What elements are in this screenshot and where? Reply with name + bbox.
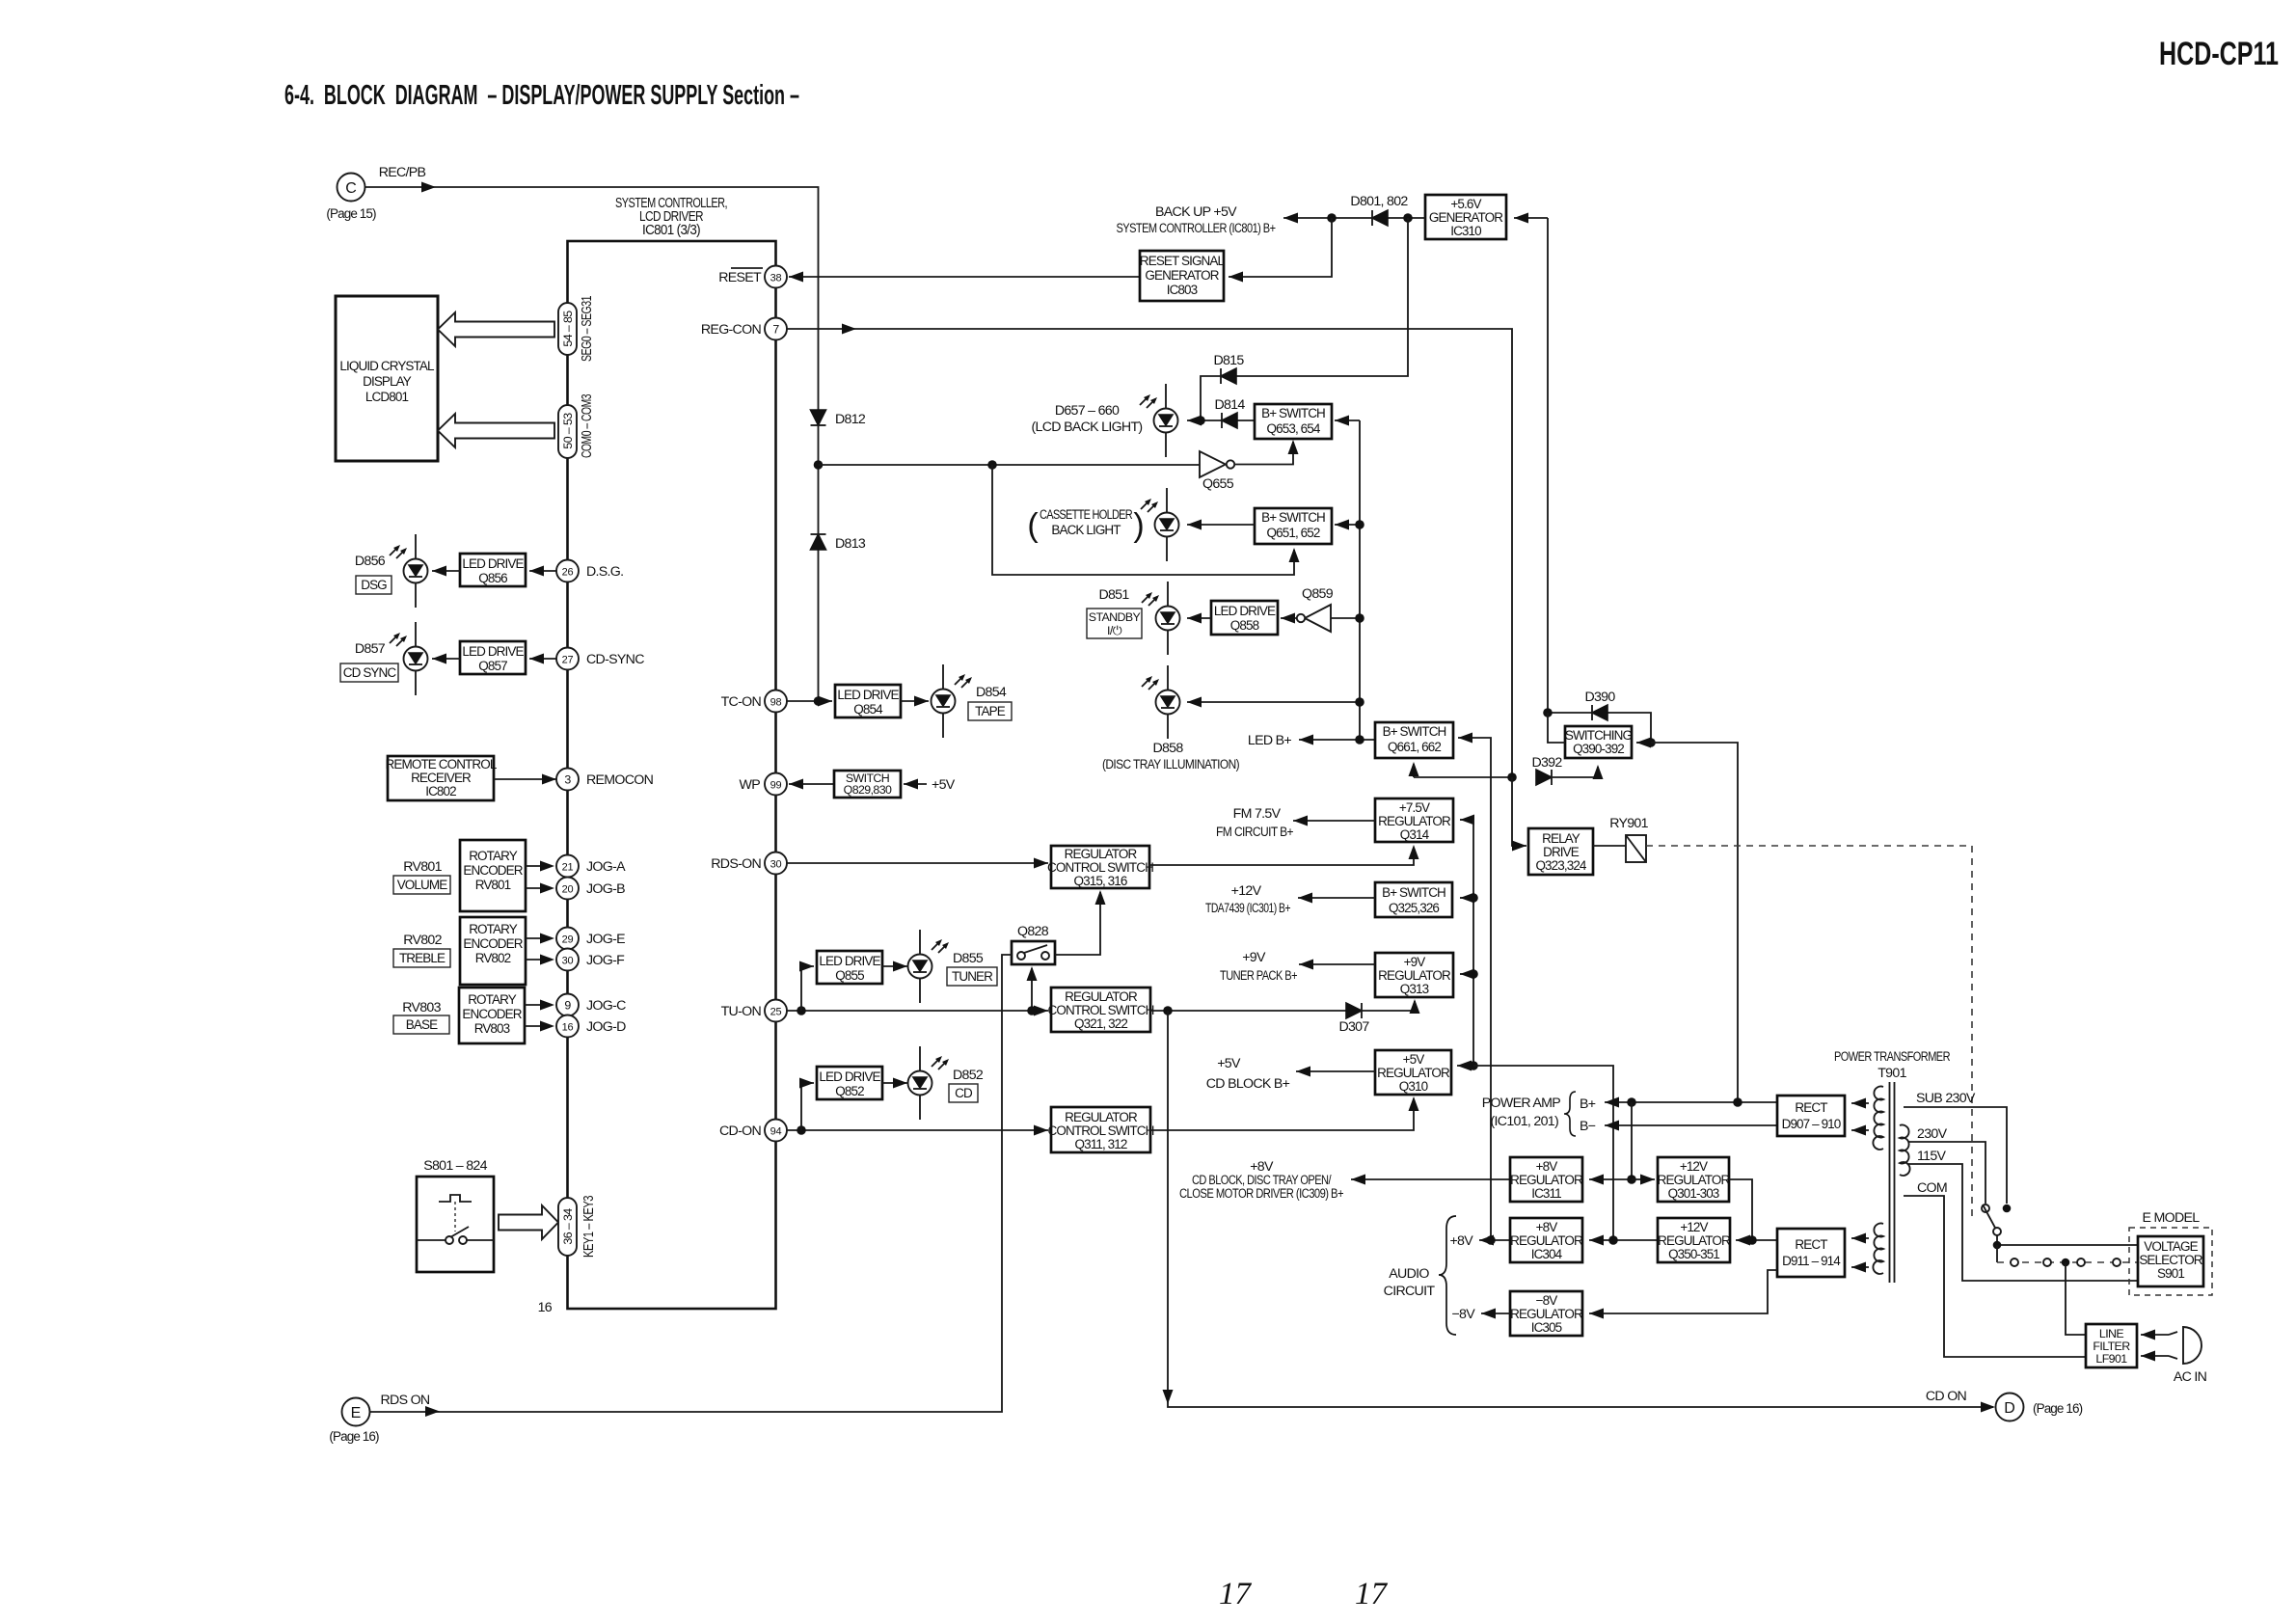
LED D857 [404, 622, 428, 695]
svg-text:HCD-CP11: HCD-CP11 [2159, 36, 2279, 72]
svg-text:SEG0 – SEG31: SEG0 – SEG31 [579, 296, 595, 362]
svg-text:Q390-392: Q390-392 [1573, 742, 1624, 756]
block +5.6V GENERATOR IC310 [1425, 195, 1506, 239]
block REGULATOR CONTROL SWITCH Q311,312 [1051, 1107, 1150, 1152]
wire RV803 to pin 9 [525, 1004, 546, 1006]
svg-text:LED DRIVE: LED DRIVE [1214, 604, 1276, 618]
svg-text:CD SYNC: CD SYNC [343, 665, 397, 680]
svg-text:CONTROL SWITCH: CONTROL SWITCH [1048, 1123, 1154, 1138]
svg-text:RY901: RY901 [1609, 816, 1648, 831]
svg-text:D: D [2004, 1400, 2015, 1417]
svg-text:D858: D858 [1152, 741, 1183, 756]
block LED DRIVE Q857 [460, 641, 526, 674]
wire Q828 bottom from TU-ON net [1031, 968, 1033, 1011]
svg-text:ENCODER: ENCODER [462, 1007, 522, 1021]
svg-text:RV803: RV803 [474, 1021, 510, 1036]
svg-text:RECT: RECT [1795, 1100, 1827, 1115]
block LED DRIVE Q852 [817, 1067, 882, 1099]
pill 36-34 KEY [558, 1198, 577, 1256]
svg-text:B+ SWITCH: B+ SWITCH [1261, 406, 1325, 420]
svg-text:REGULATOR: REGULATOR [1065, 847, 1138, 861]
svg-text:(: ( [1027, 507, 1039, 544]
svg-text:IC310: IC310 [1450, 224, 1481, 238]
svg-text:Q653, 654: Q653, 654 [1267, 421, 1321, 436]
svg-text:Q856: Q856 [478, 571, 507, 585]
svg-text:REGULATOR: REGULATOR [1065, 989, 1138, 1004]
wire Q651,652 to cassette LED [1187, 524, 1255, 526]
svg-text:AUDIO: AUDIO [1389, 1266, 1429, 1282]
wire dashed selector row [1996, 1245, 1998, 1262]
svg-text:38: 38 [770, 273, 782, 284]
svg-text:D390: D390 [1584, 690, 1615, 705]
svg-text:IC803: IC803 [1167, 283, 1198, 297]
svg-text:+8V: +8V [1536, 1220, 1558, 1234]
svg-text:REGULATOR: REGULATOR [1510, 1307, 1583, 1321]
block LED DRIVE Q854 [835, 685, 901, 717]
label DSG boxed [356, 576, 392, 594]
block arrow keys to pill [499, 1205, 558, 1239]
wire pin26 to LED DRIVE Q856 [529, 570, 557, 572]
label TUNER boxed [947, 967, 997, 986]
svg-text:LED DRIVE: LED DRIVE [462, 644, 524, 659]
svg-text:Q314: Q314 [1400, 827, 1430, 842]
svg-text:CD-SYNC: CD-SYNC [586, 652, 644, 667]
svg-text:TUNER PACK B+: TUNER PACK B+ [1220, 968, 1297, 984]
svg-text:25: 25 [770, 1007, 782, 1018]
wire Q310 input junction [1457, 1065, 1473, 1067]
svg-text:FM CIRCUIT B+: FM CIRCUIT B+ [1216, 825, 1293, 840]
key switch symbol [439, 1195, 472, 1202]
svg-text:D392: D392 [1531, 755, 1562, 771]
svg-text:E: E [351, 1405, 362, 1421]
svg-text:Q858: Q858 [1230, 618, 1259, 633]
LED D855 tuner [908, 930, 932, 1003]
svg-text:DSG: DSG [361, 578, 387, 592]
svg-text:DRIVE: DRIVE [1543, 845, 1580, 859]
svg-text:DISPLAY: DISPLAY [363, 374, 412, 389]
svg-text:Q859: Q859 [1302, 586, 1334, 602]
svg-text:COM0 – COM3: COM0 – COM3 [579, 394, 595, 458]
svg-text:RESET SIGNAL: RESET SIGNAL [1140, 254, 1226, 268]
svg-text:54 – 85: 54 – 85 [561, 311, 575, 347]
svg-text:JOG-A: JOG-A [586, 859, 626, 875]
svg-text:RESET: RESET [718, 270, 762, 285]
wire branch to LED DRIVE Q852 [801, 1083, 814, 1130]
svg-text:STANDBY: STANDBY [1089, 610, 1141, 624]
svg-text:Q852: Q852 [835, 1084, 864, 1098]
svg-text:(Page 16): (Page 16) [2033, 1401, 2083, 1416]
block ROTARY ENCODER RV803 [459, 988, 525, 1043]
svg-text:REGULATOR: REGULATOR [1377, 1066, 1450, 1080]
wire 230V tap [1908, 1142, 1985, 1204]
wire Q856 to LED D856 [432, 570, 460, 572]
wire CD ON long branch to node D [1168, 1011, 1993, 1407]
wire Q311,312 output to Q310 [1150, 1098, 1414, 1130]
svg-text:RDS-ON: RDS-ON [711, 856, 761, 872]
label TAPE boxed [968, 702, 1012, 720]
svg-text:REGULATOR: REGULATOR [1658, 1233, 1731, 1248]
pin 3 REMOCON [556, 769, 579, 791]
transformer secondary coil [1900, 1125, 1910, 1177]
wire COM tap [1904, 1196, 2086, 1357]
svg-text:COM: COM [1917, 1180, 1947, 1196]
wire relay drive to RY901 [1593, 845, 1626, 847]
svg-text:CLOSE MOTOR DRIVER (IC309) B+: CLOSE MOTOR DRIVER (IC309) B+ [1179, 1186, 1343, 1202]
block SWITCH Q829,830 [834, 771, 901, 798]
wire RECT D911-914 to IC305 [1589, 1270, 1777, 1313]
svg-text:IC801 (3/3): IC801 (3/3) [642, 223, 700, 238]
wire TU-ON to Q321,322 [787, 1010, 1049, 1012]
wire IC802 to pin 3 [494, 778, 556, 780]
wire cassette holder LED feed [992, 465, 1294, 575]
block REGULATOR CONTROL SWITCH Q315,316 [1051, 846, 1149, 888]
svg-text:LED B+: LED B+ [1248, 733, 1292, 748]
svg-text:AC IN: AC IN [2174, 1369, 2207, 1385]
transformer primary coil top [1873, 1087, 1883, 1150]
svg-text:Q301-303: Q301-303 [1668, 1186, 1719, 1201]
wire Q314 input from +12V rail [1460, 819, 1473, 821]
svg-text:RELAY: RELAY [1542, 831, 1580, 846]
svg-text:VOLTAGE: VOLTAGE [2144, 1239, 2198, 1254]
pin 27 CD-SYNC [556, 648, 579, 670]
wire REG-CON down to relay drive [1512, 777, 1526, 846]
svg-text:CIRCUIT: CIRCUIT [1384, 1284, 1436, 1299]
svg-text:Q311, 312: Q311, 312 [1075, 1137, 1127, 1151]
svg-text:): ) [1133, 507, 1144, 544]
svg-text:D907 – 910: D907 – 910 [1782, 1117, 1841, 1131]
svg-text:TAPE: TAPE [975, 704, 1006, 718]
svg-text:Q828: Q828 [1017, 924, 1049, 939]
wire RV803 to pin 16 [525, 1025, 546, 1027]
svg-text:36 – 34: 36 – 34 [561, 1208, 575, 1245]
block +8V REGULATOR IC304 [1510, 1218, 1582, 1262]
svg-text:ENCODER: ENCODER [463, 936, 523, 951]
svg-text:CONTROL SWITCH: CONTROL SWITCH [1048, 1003, 1154, 1017]
svg-text:CD BLOCK B+: CD BLOCK B+ [1206, 1076, 1290, 1092]
svg-text:RV801: RV801 [403, 859, 442, 875]
diode D390 [1592, 705, 1607, 720]
svg-text:REMOCON: REMOCON [586, 772, 654, 788]
diode D814 [1222, 413, 1237, 428]
svg-text:RDS ON: RDS ON [381, 1393, 430, 1408]
svg-text:Q321, 322: Q321, 322 [1074, 1016, 1127, 1031]
svg-text:D855: D855 [953, 951, 984, 966]
node C (page 15) [338, 174, 365, 202]
svg-text:Q661, 662: Q661, 662 [1388, 740, 1441, 754]
pin 26 D.S.G. [556, 560, 579, 582]
wire Q653,654 input from LED B+ rail [1335, 420, 1360, 421]
svg-text:JOG-D: JOG-D [586, 1019, 626, 1035]
wire rail to D858 [1187, 701, 1360, 703]
svg-text:C: C [345, 180, 357, 197]
wire Q859 input from rail [1331, 617, 1360, 619]
wire IC304 input from Q350-351 [1589, 1239, 1658, 1241]
inverter Q655 [819, 464, 1201, 466]
svg-text:JOG-C: JOG-C [586, 998, 626, 1014]
svg-text:REGULATOR: REGULATOR [1065, 1110, 1138, 1124]
wire Q314 output FM 7.5V [1293, 820, 1375, 822]
svg-text:BASE: BASE [406, 1017, 438, 1032]
svg-text:JOG-B: JOG-B [586, 881, 625, 897]
pin 30 JOG-F [556, 949, 579, 971]
wire Q325,326 input [1460, 897, 1473, 899]
svg-text:Q325,326: Q325,326 [1389, 901, 1439, 915]
wire Q858 to D851 [1187, 617, 1211, 619]
wire RDS ON from E to Q828 [370, 1409, 1003, 1412]
block +5V REGULATOR Q310 [1375, 1050, 1451, 1095]
svg-text:S801 – 824: S801 – 824 [423, 1158, 487, 1174]
block LED DRIVE Q855 [817, 951, 882, 984]
wire RV802 to pin 29 [526, 937, 546, 939]
wire Q852 to LED D852 [882, 1082, 907, 1084]
svg-text:TC-ON: TC-ON [721, 694, 762, 710]
wire pin27 to LED DRIVE Q857 [529, 658, 557, 660]
wire Q301-303 output down to +12V rail [1729, 1179, 1752, 1240]
svg-text:LF901: LF901 [2095, 1352, 2127, 1366]
wire RESET from IC803 [789, 276, 1140, 278]
svg-text:REGULATOR: REGULATOR [1510, 1233, 1583, 1248]
svg-text:D307: D307 [1338, 1019, 1369, 1035]
wire LED B+ [1299, 739, 1375, 741]
label CD SYNC boxed [340, 663, 398, 682]
svg-text:50 – 53: 50 – 53 [561, 413, 575, 449]
svg-text:IC311: IC311 [1531, 1186, 1561, 1201]
svg-text:REG-CON: REG-CON [701, 322, 762, 338]
wire Q651,652 input from rail [1335, 524, 1360, 526]
block ROTARY ENCODER RV802 [460, 917, 526, 985]
LED cassette holder back light [1155, 488, 1179, 561]
block +8V REGULATOR IC311 [1510, 1157, 1582, 1202]
wire Q828 right up to Q315,316 [1055, 892, 1100, 955]
wire Q661,662 bottom from REG-CON net [1413, 764, 1415, 777]
svg-text:D814: D814 [1214, 397, 1245, 413]
svg-text:D857: D857 [355, 641, 386, 657]
wire B- from RECT D907-910 [1605, 1124, 1777, 1126]
svg-text:POWER AMP: POWER AMP [1482, 1096, 1560, 1111]
label STANDBY boxed [1087, 609, 1142, 638]
wire Q313 input [1460, 973, 1473, 975]
svg-text:99: 99 [770, 780, 782, 792]
svg-text:D657 – 660: D657 – 660 [1055, 403, 1120, 419]
svg-text:VOLUME: VOLUME [397, 878, 448, 892]
svg-text:+5.6V: +5.6V [1450, 197, 1481, 211]
block B+ SWITCH Q661,662 [1375, 722, 1453, 758]
svg-text:9: 9 [564, 999, 571, 1013]
svg-text:RECT: RECT [1795, 1237, 1827, 1252]
diode D812 [811, 410, 826, 425]
svg-text:LED DRIVE: LED DRIVE [819, 954, 880, 968]
pin 94 CD-ON [765, 1120, 787, 1142]
svg-text:ROTARY: ROTARY [469, 922, 518, 936]
wire D814 from Q653,654 to LCD backlight LED [1187, 420, 1255, 421]
block arrow COM bus to LCD [438, 414, 554, 447]
node D (page 16) [1996, 1394, 2024, 1421]
svg-text:115V: 115V [1917, 1149, 1947, 1164]
svg-text:LED DRIVE: LED DRIVE [819, 1069, 880, 1084]
pin 16 JOG-D [556, 1015, 579, 1038]
wire transformer into rect bottom [1851, 1237, 1869, 1239]
svg-text:Q854: Q854 [853, 702, 883, 717]
svg-text:(IC101, 201): (IC101, 201) [1491, 1114, 1558, 1129]
svg-text:+12V: +12V [1680, 1220, 1708, 1234]
wire REG-CON to switching area [787, 329, 1513, 777]
svg-text:27: 27 [562, 655, 574, 666]
wire transformer to rect top [1851, 1102, 1869, 1104]
svg-text:20: 20 [562, 884, 574, 896]
svg-text:30: 30 [770, 859, 782, 871]
diode D813 [811, 534, 826, 550]
svg-text:D.S.G.: D.S.G. [586, 564, 623, 580]
svg-text:Q313: Q313 [1400, 982, 1429, 996]
label BASE boxed [393, 1015, 449, 1034]
svg-text:D813: D813 [835, 536, 866, 552]
svg-text:SELECTOR: SELECTOR [2139, 1253, 2202, 1267]
svg-text:7: 7 [772, 323, 779, 337]
block LED DRIVE Q856 [460, 554, 526, 586]
svg-text:CASSETTE HOLDER: CASSETTE HOLDER [1040, 507, 1133, 522]
svg-text:B+ SWITCH: B+ SWITCH [1382, 885, 1445, 900]
pin 21 JOG-A [556, 855, 579, 878]
wire CD-ON to Q311,312 [787, 1129, 1049, 1131]
svg-text:BACK LIGHT: BACK LIGHT [1051, 523, 1121, 537]
wire IC310 rail into SWITCHING left [1548, 713, 1565, 743]
svg-text:B+ SWITCH: B+ SWITCH [1261, 510, 1325, 525]
node E RDS ON [342, 1398, 370, 1426]
wire Q310 output +5V CD block [1296, 1070, 1375, 1072]
pin 38 RESET [765, 266, 787, 288]
svg-text:LINE: LINE [2099, 1327, 2123, 1340]
LED D852 cd [908, 1046, 932, 1120]
svg-text:(Page 16): (Page 16) [329, 1429, 379, 1444]
wire SWITCHING input from B+ [1651, 743, 1738, 1103]
wire REC/PB from C to vertical [365, 187, 819, 701]
svg-text:Q855: Q855 [835, 968, 864, 983]
wire Q855 to LED D855 [882, 965, 907, 967]
svg-text:(DISC TRAY ILLUMINATION): (DISC TRAY ILLUMINATION) [1102, 757, 1239, 772]
svg-text:SWITCHING: SWITCHING [1565, 728, 1633, 743]
label TREBLE boxed [393, 949, 450, 967]
wire AC plug to line filter [2141, 1334, 2169, 1336]
wire Q859 output to Q858 [1281, 617, 1297, 619]
svg-text:Q857: Q857 [478, 659, 507, 673]
svg-text:D856: D856 [355, 554, 386, 569]
svg-text:CD ON: CD ON [1926, 1389, 1967, 1404]
pin 20 JOG-B [556, 878, 579, 900]
pill 50-53 on IC801 edge [558, 405, 577, 458]
diode D801,802 [1372, 210, 1388, 226]
svg-text:Q655: Q655 [1202, 476, 1234, 492]
svg-text:B+ SWITCH: B+ SWITCH [1383, 724, 1446, 739]
wire IC310 input from switching rail [1514, 217, 1548, 219]
wire Q321,322 output through D307 to Q313 [1150, 1001, 1415, 1011]
wire backup +5V output line with D801,802 [1283, 217, 1425, 219]
svg-text:CD: CD [955, 1086, 973, 1100]
pin 7 REG-CON [765, 318, 787, 340]
switch Q828 [1012, 941, 1055, 964]
svg-text:FILTER: FILTER [2093, 1340, 2130, 1353]
svg-text:B+: B+ [1580, 1096, 1596, 1112]
svg-text:(LCD BACK LIGHT): (LCD BACK LIGHT) [1032, 420, 1143, 435]
svg-text:+7.5V: +7.5V [1399, 800, 1430, 815]
wire REG-CON horizontal with D392 [1414, 776, 1512, 778]
svg-text:94: 94 [770, 1126, 782, 1138]
svg-text:16: 16 [538, 1300, 553, 1315]
svg-text:B−: B− [1580, 1119, 1596, 1134]
pin 25 TU-ON [765, 1000, 787, 1022]
block -8V REGULATOR IC305 [1510, 1291, 1582, 1336]
block arrow SEG bus to LCD [438, 312, 554, 346]
diode D392 [1536, 770, 1552, 785]
svg-text:+12V: +12V [1680, 1159, 1708, 1174]
svg-text:LCD801: LCD801 [365, 390, 409, 404]
svg-text:T901: T901 [1877, 1066, 1906, 1081]
block +12V REGULATOR Q301-303 [1658, 1157, 1729, 1202]
wire selector common to S901 [1997, 1235, 2138, 1245]
svg-text:ROTARY: ROTARY [468, 992, 517, 1007]
svg-text:TU-ON: TU-ON [721, 1004, 762, 1019]
label VOLUME boxed [393, 876, 450, 894]
transformer T901 core [1889, 1082, 1891, 1283]
svg-text:Q310: Q310 [1399, 1079, 1428, 1094]
svg-text:REGULATOR: REGULATOR [1658, 1173, 1731, 1187]
svg-text:+8V: +8V [1536, 1159, 1558, 1174]
wire TC-ON to Q854 [787, 700, 833, 702]
wire B+ from RECT D907-910 [1605, 1101, 1777, 1103]
wire +12V rail over to IC304 line [1473, 1066, 1613, 1240]
wire D815 branch [1201, 218, 1408, 420]
wire selector to line filter [2066, 1262, 2086, 1335]
block B+ SWITCH Q651,652 [1255, 508, 1332, 544]
wire IC311 output [1351, 1178, 1510, 1180]
wire Q857 to LED D857 [432, 658, 460, 660]
wire +8V audio output [1479, 1239, 1510, 1241]
LCD display block LCD801 [336, 296, 438, 461]
svg-text:D911 – 914: D911 – 914 [1782, 1254, 1841, 1268]
svg-text:ENCODER: ENCODER [463, 863, 523, 878]
block REGULATOR CONTROL SWITCH Q321,322 [1051, 988, 1150, 1032]
svg-text:D852: D852 [953, 1068, 984, 1083]
wire junction to Q301-303 [1632, 1178, 1655, 1180]
pin 9 JOG-C [556, 994, 579, 1016]
svg-text:Q829,830: Q829,830 [844, 783, 892, 797]
pin 30 RDS-ON [765, 853, 787, 875]
svg-text:JOG-F: JOG-F [586, 953, 625, 968]
wire Q661,662 input from +8V rail [1458, 738, 1491, 1240]
wire RV801 to pin 20 [526, 887, 546, 889]
wire B+ down to regulator feed [1631, 1102, 1633, 1179]
svg-text:SUB 230V: SUB 230V [1916, 1091, 1976, 1106]
wire Q350-351 input from RECT D911-914 [1736, 1239, 1777, 1241]
svg-text:D801, 802: D801, 802 [1350, 194, 1408, 209]
svg-text:I/⏻: I/⏻ [1107, 624, 1122, 637]
block LED DRIVE Q858 [1211, 601, 1278, 635]
block RECT D907-910 [1777, 1096, 1845, 1136]
svg-text:FM 7.5V: FM 7.5V [1233, 806, 1282, 822]
voltage selector switch contacts [2003, 1204, 2012, 1213]
LED D657-660 LCD back light [1154, 384, 1178, 457]
wire WP from SWITCH [789, 783, 834, 785]
wire Q655 output up into Q653,654 [1234, 442, 1293, 465]
svg-text:REGULATOR: REGULATOR [1510, 1173, 1583, 1187]
svg-text:D851: D851 [1098, 587, 1129, 603]
svg-text:LIQUID CRYSTAL: LIQUID CRYSTAL [339, 359, 435, 373]
wire Q315,316 output to Q314 [1149, 848, 1414, 865]
svg-text:TREBLE: TREBLE [399, 951, 446, 965]
E MODEL dashed box [2129, 1228, 2212, 1295]
svg-text:D854: D854 [976, 685, 1007, 700]
svg-text:LED DRIVE: LED DRIVE [462, 556, 524, 571]
svg-text:D815: D815 [1213, 353, 1244, 368]
